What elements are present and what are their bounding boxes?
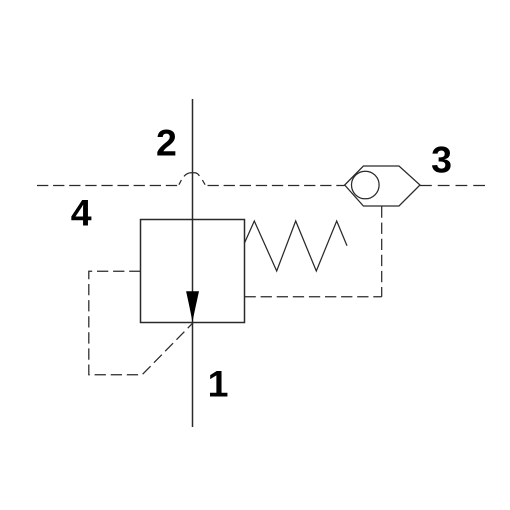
spring: relief valve spring: [245, 221, 348, 271]
wire: line hop left shoulder: [179, 180, 182, 185]
wire: dashed pilot line left segment (port 4 line): [37, 185, 178, 187]
svg-text:3: 3: [431, 139, 452, 181]
valve V1: relief valve body (square envelope): [141, 220, 245, 323]
svg-text:2: 2: [156, 121, 177, 163]
wire: dashed line from check valve to port 3: [420, 185, 485, 187]
wire: line hop right shoulder: [202, 180, 205, 185]
svg-text:1: 1: [208, 363, 229, 405]
wire: line hop arc over vertical line: [184, 173, 199, 177]
arrow: flow direction arrowhead inside valve body: [186, 291, 199, 322]
wire: dashed pilot line middle segment to check valve: [208, 185, 345, 187]
wire: dashed pilot loop from valve left side to bottom junction: [89, 271, 193, 375]
wire: main vertical flow line port 2 to port 1: [192, 99, 194, 427]
check valve CV1: hexagon envelope: [345, 166, 420, 206]
wire: dashed pilot line down from check valve bottom: [381, 207, 383, 297]
check valve CV1: ball (circle): [352, 171, 380, 199]
svg-text:4: 4: [71, 191, 92, 233]
wire: dashed pilot line from valve right side to corner: [245, 296, 382, 298]
